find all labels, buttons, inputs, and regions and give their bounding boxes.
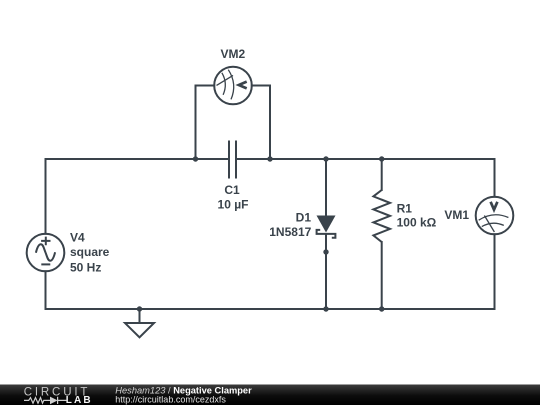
wire VM2 left branch bbox=[196, 86, 215, 160]
wire D1 cathode bbox=[325, 234, 327, 309]
wire VM2 right branch bbox=[252, 86, 270, 160]
node top rail / VM2 right bbox=[267, 156, 272, 161]
svg-text:1N5817: 1N5817 bbox=[269, 225, 311, 239]
source V4 bbox=[27, 234, 65, 272]
node D1 cathode wire bbox=[323, 249, 328, 254]
wire D1 anode bbox=[325, 159, 327, 216]
footer title text bbox=[115, 386, 252, 405]
svg-text:D1: D1 bbox=[296, 210, 312, 224]
wire right rail lower bbox=[494, 234, 496, 309]
wire right rail upper bbox=[494, 159, 496, 197]
wire left rail lower bbox=[45, 271, 47, 309]
capacitor C1 bbox=[229, 141, 236, 179]
resistor R1 bbox=[373, 190, 390, 242]
svg-text:LAB: LAB bbox=[66, 395, 93, 405]
svg-text:C1: C1 bbox=[224, 183, 240, 197]
voltmeter VM1 bbox=[476, 197, 514, 235]
node top rail / D1 bbox=[323, 156, 328, 161]
voltmeter VM2 bbox=[214, 67, 252, 105]
wire R1 bottom lead bbox=[381, 242, 383, 309]
diode D1 bbox=[317, 216, 336, 238]
svg-text:http://circuitlab.com/cezdxfs: http://circuitlab.com/cezdxfs bbox=[115, 395, 226, 405]
wire R1 top lead bbox=[381, 159, 383, 190]
ground bbox=[125, 323, 154, 337]
svg-text:10 µF: 10 µF bbox=[218, 197, 249, 211]
svg-text:V4: V4 bbox=[70, 230, 85, 244]
wire bottom rail bbox=[46, 308, 495, 310]
logo CircuitLab wordmark bbox=[24, 387, 93, 405]
svg-text:50 Hz: 50 Hz bbox=[70, 261, 101, 275]
label R1 value bbox=[397, 202, 437, 230]
wire left rail upper bbox=[45, 159, 47, 234]
svg-text:square: square bbox=[70, 245, 110, 259]
wire top rail left of C1 bbox=[46, 158, 230, 160]
node top rail / VM2 left bbox=[193, 156, 198, 161]
label C1 value bbox=[218, 183, 249, 212]
svg-text:VM2: VM2 bbox=[220, 47, 245, 61]
label V4 value bbox=[70, 230, 110, 274]
svg-text:VM1: VM1 bbox=[444, 208, 469, 222]
svg-text:100 kΩ: 100 kΩ bbox=[397, 216, 437, 230]
svg-text:R1: R1 bbox=[397, 202, 413, 216]
node bottom rail / ground bbox=[137, 306, 142, 311]
label D1 value bbox=[269, 210, 311, 239]
node bottom rail / R1 bbox=[379, 306, 384, 311]
wire ground stem bbox=[139, 309, 141, 323]
wire top rail right of C1 bbox=[236, 158, 495, 160]
logo resistor-diode symbol bbox=[24, 397, 67, 404]
node top rail / R1 bbox=[379, 156, 384, 161]
node bottom rail / D1 bbox=[323, 306, 328, 311]
